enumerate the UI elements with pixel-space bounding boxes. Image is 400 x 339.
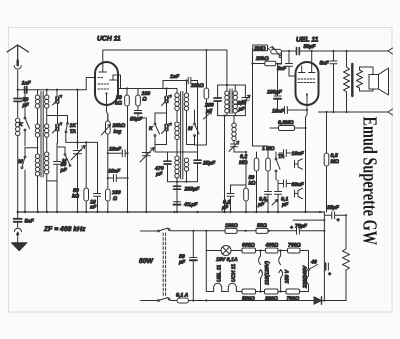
resistor 100 Ohm (225, 228, 237, 233)
wire (57, 116, 59, 124)
wire osc to det (197, 81, 199, 153)
svg-text:10nF: 10nF (292, 151, 305, 157)
svg-text:0,1 A: 0,1 A (176, 293, 188, 299)
svg-text:UCH 11: UCH 11 (231, 264, 237, 282)
potentiometer 20k body (271, 49, 282, 54)
wire right riser (345, 270, 347, 301)
wire to junction (138, 118, 146, 212)
svg-text:5nF: 5nF (25, 219, 35, 225)
svg-text:kΩ: kΩ (72, 194, 79, 200)
svg-text:2MΩ: 2MΩ (253, 46, 265, 52)
svg-text:50Ω: 50Ω (257, 223, 267, 229)
capacitor 40uF tap (325, 263, 327, 270)
svg-text:UEL 11: UEL 11 (217, 265, 223, 282)
capacitor 10nF left (94, 142, 101, 212)
coil IFT1 secondary (234, 85, 236, 91)
resistor 160 Ohm screen (137, 89, 139, 96)
capacitor 5nF grid (286, 51, 293, 76)
capacitor 5nF speaker (330, 51, 337, 112)
resistor 0.8M (279, 126, 295, 131)
capacitor 25pF (194, 160, 201, 163)
svg-text:pF: pF (60, 168, 68, 174)
capacitor 50uF B (297, 227, 325, 234)
ground symbol (12, 243, 27, 251)
capacitor 50pF antenna series (14, 99, 22, 102)
svg-text:ZF = 468 kHz: ZF = 468 kHz (43, 226, 86, 233)
transformer core (351, 64, 353, 96)
coil L3a secondary (46, 90, 48, 95)
switch 1K TA (67, 116, 69, 123)
svg-text:25pF: 25pF (202, 161, 216, 167)
resistor 20k osc anode (205, 50, 207, 88)
svg-text:110(120V): 110(120V) (265, 261, 271, 285)
wire osc anode down (205, 99, 207, 145)
svg-text:150 V: 150 V (285, 269, 291, 283)
wire anode to top bus (103, 50, 227, 66)
wire under coils (47, 180, 57, 182)
svg-text:5nF: 5nF (277, 66, 287, 72)
choke coil below IFT1 (233, 116, 235, 123)
field coil zigzag (343, 249, 350, 270)
core lines IFT1 (229, 89, 231, 114)
svg-text:1nF: 1nF (22, 81, 32, 87)
wire antenna line down (17, 136, 19, 212)
svg-text:K: K (149, 126, 154, 132)
antenna plug connector (17, 61, 19, 66)
svg-text:18V 0,1A: 18V 0,1A (216, 257, 238, 263)
voltage tap 220 (307, 271, 309, 292)
coil L2a input bandfilter (37, 90, 39, 95)
coil osc E feedback (184, 158, 188, 162)
IFT1 top wire (218, 85, 238, 97)
coil L3b (45, 124, 49, 128)
wire lamp to heater (206, 251, 210, 292)
svg-text:K: K (19, 122, 24, 128)
wire trimmer column (56, 90, 58, 96)
resistor 1M (267, 146, 269, 158)
trimmer C2 (56, 125, 59, 131)
svg-text:25µF: 25µF (326, 205, 340, 211)
trimmer below choke (231, 144, 238, 152)
svg-text:700Ω: 700Ω (287, 296, 300, 302)
IFT1 bottom wire (218, 115, 246, 117)
resistor 500 Ohm (242, 289, 256, 294)
capacitor 470pF (164, 161, 171, 164)
svg-text:80nF: 80nF (292, 182, 305, 188)
resistor 300 Ohm (265, 289, 279, 294)
coil L2c (35, 154, 39, 158)
potentiometer 20k log (127, 106, 129, 212)
svg-text:kΩ: kΩ (249, 181, 256, 187)
capacitor 10nF cathode bypass (108, 175, 128, 182)
resistor 0.5M (324, 153, 329, 166)
svg-text:+: + (337, 218, 340, 224)
bus junction dots (17, 211, 322, 213)
node top of coil bank (46, 89, 48, 91)
capacitor 10nF det (279, 150, 291, 157)
wire 155-160 links (155, 112, 167, 114)
trimmer 200pF IFT1 right (242, 85, 249, 116)
svg-text:log: log (114, 129, 123, 135)
svg-text:+: + (328, 272, 331, 278)
svg-text:20kΩ: 20kΩ (255, 56, 269, 62)
capacitor 50uF in bus (281, 48, 299, 55)
svg-text:500Ω: 500Ω (242, 296, 255, 302)
resistor 0.2M (256, 152, 258, 158)
svg-text:nF: nF (90, 205, 97, 211)
switch M osc (194, 123, 196, 125)
cathode wire to pot (107, 105, 108, 122)
svg-text:pF: pF (22, 103, 30, 109)
capacitor 80nF det (279, 180, 291, 187)
switch mains a (158, 230, 160, 232)
wire mains top lead (141, 230, 158, 232)
wire B+ riser (323, 212, 325, 301)
switch K osc (154, 123, 156, 125)
wire screen/plate right of tube (118, 88, 138, 90)
wire stub filter (293, 219, 324, 221)
coil L2b (35, 124, 39, 128)
wire screen to bus (311, 51, 313, 66)
svg-text:M: M (18, 159, 23, 165)
voltage tap 150 (280, 249, 282, 251)
resistor 50k det (245, 152, 247, 188)
wire UEL11 cathode down (305, 128, 307, 212)
capacitor 200pF IFT1 left (214, 98, 221, 101)
capacitor 0.1uF b (275, 180, 282, 212)
svg-text:µF: µF (238, 107, 246, 113)
resistor 700 Ohm (278, 250, 288, 252)
jack TA upper (295, 159, 303, 169)
wire speaker top (332, 50, 334, 52)
capacitor 1nF antenna coupling (17, 89, 19, 91)
switch K wave band (24, 90, 26, 117)
wire choke to grid (233, 147, 235, 152)
svg-text:700Ω: 700Ω (288, 243, 301, 249)
transformer primary (345, 50, 347, 52)
resistor 50 Ohm (256, 228, 268, 233)
svg-text:Ω: Ω (112, 196, 117, 202)
svg-text:5nF: 5nF (320, 61, 330, 67)
wire coil link row (25, 147, 38, 149)
capacitor 0.5uF (265, 171, 272, 212)
resistor det2 (256, 171, 258, 212)
resistor 50k (126, 87, 128, 89)
svg-text:Emud Superette GW: Emud Superette GW (359, 117, 381, 246)
svg-text:160Ω: 160Ω (225, 223, 238, 229)
capacitor 1nF osc (163, 77, 198, 83)
svg-text:MΩ: MΩ (266, 146, 274, 152)
resistor 900 Ohm (231, 250, 242, 252)
wire grid junction (280, 54, 282, 65)
connector arrow bottom (388, 109, 393, 115)
wire grid line UCH11 (86, 78, 95, 90)
tuning capacitor C gang2 (142, 153, 150, 156)
jack TA lower (295, 188, 303, 198)
coil L3c (45, 152, 49, 156)
grid dashes UEL11 (298, 78, 316, 80)
wire osc grid bus (138, 88, 155, 90)
capacitor 100uF cathode (277, 64, 279, 96)
core lines osc (180, 92, 182, 180)
wire vertical A (77, 90, 79, 149)
grid electrodes (299, 66, 316, 73)
svg-text:250µF: 250µF (184, 187, 201, 193)
svg-text:50pF: 50pF (130, 117, 143, 123)
svg-text:M: M (62, 159, 67, 165)
ground bus (18, 211, 325, 213)
resistor 50k lower (85, 142, 87, 188)
resistor 400 Ohm (256, 250, 266, 252)
antenna A1 (7, 45, 29, 61)
capacitor 4.5uF electrolytic (174, 201, 181, 203)
capacitor 50uF mains (192, 230, 194, 232)
cathode node (105, 92, 107, 94)
svg-text:10nF: 10nF (109, 147, 122, 153)
capacitor 0.1uF (227, 185, 234, 212)
wire mains bottom lead (141, 300, 158, 302)
capacitor 50pF screen (135, 106, 142, 111)
transformer secondary (357, 70, 363, 88)
switch TA (275, 158, 277, 160)
tuning capacitor C4 gang1 (74, 151, 82, 213)
trimmer C osc2 (165, 125, 168, 131)
anode electrode hexode (99, 66, 107, 72)
coil IFT1 primary (226, 85, 228, 91)
coil osc A (176, 89, 178, 94)
coil osc B (175, 122, 179, 126)
capacitor 250pF (174, 186, 181, 189)
svg-text:400Ω: 400Ω (265, 243, 279, 249)
wire AVC vertical left (253, 49, 269, 147)
cathode dot (306, 93, 308, 95)
svg-text:10nF: 10nF (108, 169, 121, 175)
svg-text:70µF: 70µF (295, 224, 308, 230)
switch M2 (64, 154, 66, 156)
core lines bandfilter (40, 92, 42, 178)
trimmer C1 (56, 97, 59, 103)
capacitor 10nF cathode UEL (285, 105, 308, 116)
wire top bus down (226, 50, 228, 85)
capacitor 25uF (324, 212, 346, 219)
svg-text:TA: TA (70, 129, 77, 135)
lamp pilot (205, 230, 207, 232)
pot wiper arrow (270, 47, 279, 56)
switch link dashed (162, 233, 164, 296)
ground plug connector (14, 228, 21, 232)
wire osc row (155, 144, 195, 146)
svg-text:+: + (290, 225, 293, 231)
wire osc top (155, 88, 177, 90)
coil osc C (175, 156, 179, 160)
heater UEL11 (210, 283, 222, 291)
capacitor 10nF coupling (108, 150, 128, 157)
voltage tap 110 (259, 249, 261, 251)
svg-text:40: 40 (310, 260, 317, 266)
coil osc D (186, 81, 188, 94)
svg-text:µF: µF (178, 260, 186, 266)
coil L1 antenna (16, 118, 20, 122)
svg-text:1: 1 (262, 146, 265, 152)
svg-text:50W: 50W (139, 258, 154, 265)
switch M wave band lower (24, 156, 26, 158)
diode rectifier (314, 297, 322, 304)
wire det rows (231, 184, 247, 186)
svg-text:900Ω: 900Ω (242, 243, 255, 249)
triode plate electrode (110, 75, 121, 89)
grid dashes hexode (98, 77, 104, 79)
svg-text:kΩ: kΩ (115, 101, 122, 107)
switch mains b (158, 300, 160, 302)
wire bottom speaker (319, 111, 389, 113)
resistor 2M boxed (253, 45, 268, 51)
resistor 700 Ohm b (286, 289, 300, 294)
connector arrow top (388, 48, 393, 54)
wire bandfilter top long (38, 89, 86, 91)
fuse 0.1A (177, 298, 189, 303)
wire band switch row (47, 115, 68, 117)
svg-text:100µF: 100µF (267, 90, 283, 96)
wire cathode row (278, 109, 285, 111)
resistor 160 Ohm cathode (106, 189, 111, 201)
svg-text:M: M (188, 126, 193, 132)
svg-text:pF: pF (155, 172, 163, 178)
wires caps row join (168, 172, 198, 182)
svg-text:MΩ: MΩ (331, 159, 339, 165)
svg-text:UEL 11: UEL 11 (296, 37, 319, 44)
speaker (369, 75, 379, 90)
resistor 20k tone (265, 61, 276, 65)
svg-text:20kΩ: 20kΩ (190, 83, 204, 89)
svg-text:50µF: 50µF (304, 44, 317, 50)
capacitor 5nF ground (17, 212, 19, 218)
heater UCH11 (222, 283, 242, 291)
svg-text:Ω: Ω (142, 97, 147, 103)
svg-text:300Ω: 300Ω (265, 296, 278, 302)
svg-text:4¾µF: 4¾µF (183, 202, 198, 208)
svg-text:µF: µF (281, 202, 289, 208)
wire IFT1 ground leg (224, 116, 226, 212)
capacitor 50pF osc pad (54, 143, 61, 212)
svg-text:1nF: 1nF (170, 74, 180, 80)
svg-text:0,8MΩ: 0,8MΩ (278, 120, 294, 126)
wire antenna lead (17, 71, 19, 98)
trimmer C osc1 (166, 89, 168, 97)
svg-text:UCH 11: UCH 11 (97, 36, 121, 43)
svg-text:10nF: 10nF (272, 109, 285, 115)
voice coil loop (360, 67, 374, 91)
